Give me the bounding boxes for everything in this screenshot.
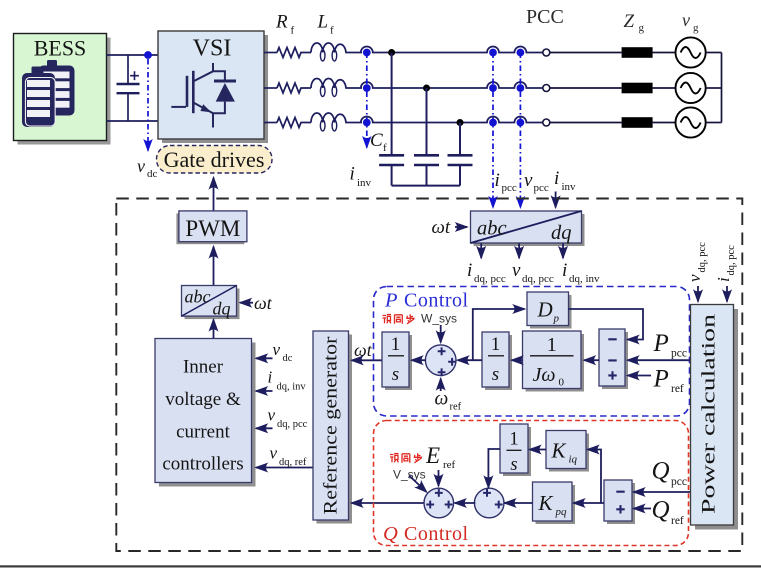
wire wt to abc/dq <box>240 302 253 304</box>
svg-text:dq, inv: dq, inv <box>569 273 600 285</box>
filter capacitor Cf1 <box>379 53 404 186</box>
integrator 1/s (P inner) <box>482 332 512 390</box>
svg-text:dq, ref: dq, ref <box>279 457 307 468</box>
svg-text:ref: ref <box>671 515 684 527</box>
svg-text:i: i <box>467 260 472 281</box>
svg-text:Q: Q <box>652 497 670 524</box>
svg-text:abc: abc <box>185 287 211 307</box>
svg-text:v: v <box>273 340 281 359</box>
wire Q-control to Reference generator <box>352 502 426 504</box>
svg-text:ωt: ωt <box>432 217 451 238</box>
svg-text:current: current <box>176 422 231 443</box>
svg-text:Control: Control <box>404 523 469 545</box>
branch wire to D_p <box>473 309 525 360</box>
wire V_sys into Q1 <box>409 476 427 493</box>
svg-text:P: P <box>653 330 669 357</box>
wire Q_pcc from power calc to comparator <box>634 491 691 493</box>
wire E_ref into Q1 <box>438 470 440 486</box>
summing node Q2 <box>474 488 504 518</box>
svg-text:ωt: ωt <box>254 293 273 313</box>
v_pcc measurement dots <box>517 49 525 57</box>
svg-text:Z: Z <box>624 11 635 32</box>
svg-text:1: 1 <box>491 334 501 355</box>
phase a wire <box>264 43 543 61</box>
svg-text:R: R <box>275 12 288 33</box>
svg-text:0: 0 <box>559 377 565 389</box>
breaker contact (open circle) phase b <box>543 85 550 92</box>
svg-text:Q: Q <box>652 458 670 485</box>
label yutongbu (red CJK) Q <box>390 453 422 463</box>
output arrow v_dq,pcc <box>518 244 520 259</box>
comparator block P <box>599 329 628 389</box>
svg-text:f: f <box>330 25 334 37</box>
output arrow i_dq,pcc <box>480 244 482 259</box>
v_pcc dash-dot measurement line <box>519 53 521 208</box>
wire w_ref into summing node <box>440 379 442 392</box>
svg-text:E: E <box>425 443 440 468</box>
svg-text:ω: ω <box>435 389 449 410</box>
svg-text:dq, pcc: dq, pcc <box>474 273 506 285</box>
dc-link capacitor <box>117 55 140 121</box>
gain block K_pq <box>533 482 576 524</box>
damping block D_p <box>527 292 572 329</box>
svg-text:i: i <box>562 260 567 281</box>
svg-text:dc: dc <box>283 353 293 364</box>
svg-text:pq: pq <box>555 506 568 518</box>
Inner controllers block <box>155 339 256 487</box>
input stub v_dc <box>256 357 273 359</box>
svg-text:v: v <box>268 406 276 425</box>
wire 1/(Jw0) to 1/s <box>512 359 523 361</box>
svg-text:C: C <box>370 130 383 151</box>
svg-text:v: v <box>524 170 533 191</box>
i_inv measurement dots <box>363 49 371 57</box>
svg-text:dq, pcc: dq, pcc <box>726 245 737 276</box>
svg-text:dq: dq <box>551 222 572 244</box>
Power calculation block <box>691 305 739 530</box>
svg-text:s: s <box>510 455 517 475</box>
svg-text:V_sys: V_sys <box>393 468 426 482</box>
svg-text:inv: inv <box>562 181 577 193</box>
wire wt to abc/dq <box>455 226 467 228</box>
svg-text:ref: ref <box>443 459 456 471</box>
svg-text:dq: dq <box>213 299 231 319</box>
inertia block 1/(Jw0) <box>523 331 585 392</box>
BESS box <box>14 34 111 145</box>
svg-text:ref: ref <box>671 383 684 395</box>
svg-text:1: 1 <box>391 334 401 355</box>
svg-text:1: 1 <box>509 430 518 450</box>
svg-text:D: D <box>537 298 553 322</box>
svg-text:s: s <box>392 364 399 385</box>
svg-text:pcc: pcc <box>502 182 517 194</box>
node phase b / Cf2 <box>423 85 430 92</box>
IGBT emitter arrowhead <box>200 104 211 112</box>
svg-text:v: v <box>270 444 278 463</box>
svg-text:Gate drives: Gate drives <box>164 147 265 172</box>
svg-text:v: v <box>512 260 521 281</box>
svg-text:Control: Control <box>404 290 469 312</box>
wire 1/s to summing node <box>458 359 483 361</box>
grid impedance Zg phase b <box>622 83 653 94</box>
breaker contact (open circle) phase c <box>543 119 550 126</box>
wire Inner to abc/dq <box>213 320 215 339</box>
svg-text:Reference generator: Reference generator <box>322 337 342 515</box>
svg-text:p: p <box>553 313 560 325</box>
wire D_p feedback into comparator <box>569 309 644 340</box>
comparator block Q <box>604 480 635 524</box>
svg-text:ref: ref <box>450 402 462 413</box>
bottom page rule <box>0 565 761 567</box>
svg-text:v: v <box>682 10 690 30</box>
wire Q2 to Q1 <box>455 502 476 504</box>
svg-text:inv: inv <box>357 177 372 189</box>
wire comparator to K_pq <box>574 502 605 504</box>
svg-text:VSI: VSI <box>193 36 232 62</box>
label yutongbu (red CJK) P <box>383 314 415 324</box>
wire comparator to 1/(Jw0) <box>584 359 599 361</box>
svg-text:dq, pcc: dq, pcc <box>277 419 308 430</box>
VSI box <box>158 31 268 143</box>
label v_dq,pcc (rotated) <box>685 242 708 282</box>
wire summing node to 1/s outer <box>412 359 427 361</box>
svg-text:Jω: Jω <box>533 364 556 386</box>
svg-text:pcc: pcc <box>671 476 687 488</box>
output arrow i_dq,inv <box>562 244 564 259</box>
svg-text:v: v <box>685 274 704 282</box>
Q control dashed box <box>374 421 689 546</box>
wire W_sys into summing node <box>440 325 442 343</box>
svg-text:dq, inv: dq, inv <box>277 382 307 393</box>
svg-text:P: P <box>653 366 669 393</box>
input stub v_dq,pcc <box>256 427 273 429</box>
wire P-control to Reference generator <box>352 359 382 361</box>
wire 1/s down into Q2 <box>488 449 500 488</box>
svg-text:ωt: ωt <box>354 340 373 360</box>
i_inv dash-dot measurement line <box>366 53 368 148</box>
SECTION: control area <box>116 199 742 552</box>
SECTION: three phase lines <box>264 6 722 208</box>
gain block K_iq <box>546 431 589 472</box>
input arrow v_dq,pcc <box>697 286 699 302</box>
svg-text:P: P <box>384 290 398 312</box>
svg-text:f: f <box>291 25 295 37</box>
integrator 1/s (Q) <box>500 424 531 476</box>
svg-text:i: i <box>268 368 273 387</box>
svg-text:f: f <box>383 142 387 154</box>
svg-text:i: i <box>495 170 500 191</box>
SECTION: top power circuit <box>14 31 273 211</box>
svg-text:pcc: pcc <box>671 348 687 360</box>
svg-text:dq, pcc: dq, pcc <box>697 242 708 273</box>
svg-text:i: i <box>714 277 733 282</box>
plus polarity mark <box>130 71 139 80</box>
svg-text:K: K <box>538 491 554 515</box>
svg-text:Q: Q <box>383 523 398 545</box>
node vdc (blue dot) <box>144 51 152 59</box>
node phase c / Cf3 <box>457 119 464 126</box>
node phase a / Cf1 <box>388 49 395 56</box>
abc/dq transform block (measurement) <box>471 211 585 246</box>
IGBT antiparallel diode <box>214 80 236 102</box>
filter capacitor Cf3 <box>448 123 473 186</box>
filter capacitor Cf2 <box>414 88 439 186</box>
vdc measurement dash-dot line <box>147 59 149 151</box>
label i_dq,pcc (rotated) <box>714 245 737 282</box>
svg-text:s: s <box>492 364 499 385</box>
dc top rail wire <box>107 54 159 56</box>
svg-text:dc: dc <box>147 168 158 180</box>
svg-text:v: v <box>137 156 145 176</box>
phase c wire <box>264 113 543 131</box>
grid source vg phase b <box>676 73 706 103</box>
svg-text:dq, pcc: dq, pcc <box>522 273 554 285</box>
svg-text:Power calculation: Power calculation <box>699 313 720 514</box>
wire K_pq to Q2 <box>505 502 533 504</box>
Gate drives box <box>157 146 273 174</box>
input arrow i_dq,pcc <box>726 286 728 302</box>
branch wire to K_iq <box>588 450 602 504</box>
IGBT symbol U1 <box>171 63 225 128</box>
wire v_dq,ref from Reference generator to Inner <box>256 467 313 469</box>
wire abc/dq to PWM <box>213 247 215 286</box>
i_pcc dash-dot measurement line <box>492 53 494 208</box>
wire P_pcc from power calc to comparator <box>628 359 691 361</box>
Reference generator block <box>313 331 352 524</box>
svg-text:i: i <box>350 164 355 185</box>
i_pcc measurement dots <box>489 49 497 57</box>
i_inv wire into abc/dq <box>555 192 557 208</box>
battery icon (back cell) <box>39 60 75 116</box>
grid source vg phase c <box>676 107 706 137</box>
svg-text:controllers: controllers <box>162 454 243 475</box>
svg-text:PWM: PWM <box>185 216 240 241</box>
P control dashed box <box>374 287 690 417</box>
svg-text:L: L <box>317 12 329 33</box>
summing node P <box>425 345 456 376</box>
integrator 1/s (P outer) <box>382 332 412 390</box>
grid impedance Zg phase c <box>622 117 653 128</box>
wire Q_ref into comparator <box>634 508 652 510</box>
battery icon (front cell) <box>22 67 55 128</box>
svg-text:W_sys: W_sys <box>421 312 457 326</box>
svg-text:K: K <box>551 439 567 463</box>
svg-text:iq: iq <box>569 454 578 466</box>
svg-text:abc: abc <box>477 218 507 240</box>
svg-text:g: g <box>693 22 699 34</box>
wire P_ref into comparator <box>628 375 652 377</box>
svg-text:Inner: Inner <box>183 357 224 378</box>
svg-text:i: i <box>554 168 559 189</box>
phase b wire <box>264 78 543 96</box>
abc/dq transform block (inverter side) <box>182 286 240 320</box>
outer controller dashed box <box>116 199 742 552</box>
grid neutral vertical wire <box>721 53 723 123</box>
grid source vg phase a <box>676 37 706 67</box>
input stub i_dq,inv <box>256 390 273 392</box>
svg-text:1: 1 <box>547 334 557 356</box>
capacitor bottom bus wire <box>392 185 460 187</box>
breaker contact (open circle) phase a <box>543 49 550 56</box>
PWM block <box>176 211 247 244</box>
svg-text:voltage &: voltage & <box>165 389 241 410</box>
svg-text:BESS: BESS <box>34 36 87 61</box>
dc bottom rail wire <box>107 120 159 122</box>
grid impedance Zg phase a <box>622 47 653 58</box>
svg-text:pcc: pcc <box>534 182 549 194</box>
svg-text:g: g <box>639 22 645 34</box>
summing node Q1 <box>424 488 454 518</box>
svg-text:PCC: PCC <box>526 6 564 28</box>
wire K_iq to 1/s <box>530 449 547 451</box>
wire PWM to Gate drives <box>213 178 215 212</box>
